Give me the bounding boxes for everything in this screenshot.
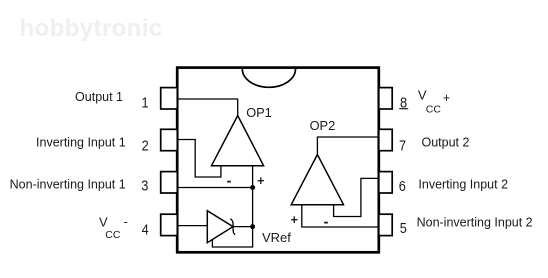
svg-text:V: V [418, 87, 427, 102]
svg-text:CC: CC [105, 229, 121, 241]
svg-text:+: + [257, 174, 264, 188]
op-amp OP2 triangle [291, 155, 343, 205]
svg-text:+: + [443, 91, 450, 105]
svg-text:Output 2: Output 2 [422, 136, 470, 150]
wire OP2 inverting input to pin 6 [334, 178, 379, 216]
svg-text:7: 7 [399, 138, 406, 154]
wire VRef diode cathode to node [233, 226, 253, 228]
pin 6 box [379, 172, 392, 193]
svg-text:OP2: OP2 [310, 118, 336, 133]
VRef diode curved cathode mark [230, 219, 235, 235]
svg-text:3: 3 [141, 178, 148, 194]
wire pin3 to OP1 non-inverting input [177, 187, 253, 189]
svg-text:1: 1 [141, 95, 148, 111]
pin 8 box [379, 88, 392, 109]
VRef diode triangle [207, 211, 233, 243]
svg-text:Inverting Input 2: Inverting Input 2 [418, 178, 508, 192]
svg-text:-: - [324, 214, 329, 230]
svg-text:5: 5 [400, 220, 407, 236]
wire OP2 output (apex) to pin 7 [317, 137, 379, 155]
op-amp OP1 triangle [212, 116, 264, 166]
OP1 non-inverting input lead / VRef vertical wire [212, 166, 252, 247]
node junction dot (pin3 / +input / VRef) [250, 185, 255, 190]
pin 3 box [161, 172, 178, 193]
svg-text:Non-inverting Input 1: Non-inverting Input 1 [10, 178, 126, 192]
svg-text:Inverting Input 1: Inverting Input 1 [36, 136, 126, 150]
svg-text:2: 2 [142, 138, 149, 154]
wire pin4 to VRef diode anode [177, 225, 207, 227]
svg-text:6: 6 [399, 178, 406, 194]
svg-text:VRef: VRef [262, 230, 291, 245]
svg-text:Non-inverting Input 2: Non-inverting Input 2 [417, 216, 533, 230]
svg-text:Output 1: Output 1 [75, 90, 123, 104]
label VCC+ (pin 8) [418, 87, 450, 115]
label VCC- (pin 4) [99, 215, 128, 241]
pin 4 box [161, 214, 178, 235]
svg-text:8: 8 [400, 95, 407, 111]
node junction dot (VRef output) [250, 224, 255, 229]
IC body U1 (DIP-8 package outline) [177, 68, 379, 253]
pin 1 box [161, 88, 178, 109]
svg-text:4: 4 [142, 222, 149, 238]
svg-text:hobbytronic: hobbytronic [20, 15, 163, 42]
pin 8 underline [399, 108, 408, 110]
svg-text:V: V [99, 215, 108, 230]
wire pin1 to OP1 output (apex) [177, 99, 238, 116]
svg-text:+: + [291, 213, 298, 227]
pin 2 box [161, 129, 178, 150]
svg-text:-: - [124, 215, 128, 229]
svg-text:OP1: OP1 [246, 105, 272, 120]
wire pin2 to OP1 inverting input [177, 140, 221, 178]
svg-text:CC: CC [426, 103, 442, 115]
pin 5 box [379, 214, 392, 235]
pin 7 box [379, 129, 392, 150]
pin-1 orientation notch [242, 69, 295, 87]
wire OP2 non-inverting input to pin 5 [302, 205, 379, 227]
